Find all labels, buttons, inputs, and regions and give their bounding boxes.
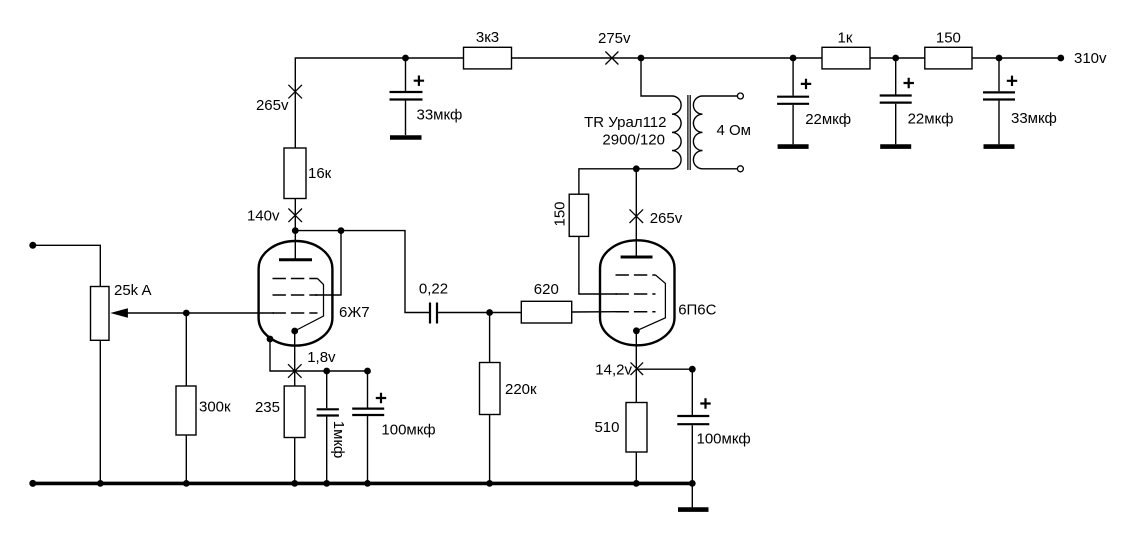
- capacitor C 100мкф (first): [352, 371, 435, 483]
- node bus terminal left: [29, 480, 36, 487]
- resistor R 235: [255, 386, 305, 483]
- wire input to potentiometer: [33, 245, 101, 286]
- svg-text:220к: 220к: [505, 381, 537, 398]
- node junction grid 6П6С: [486, 309, 493, 316]
- wire cathode 6Ж7 down: [294, 331, 296, 386]
- transformer core: [687, 95, 689, 170]
- capacitor C 22мкф (first): [777, 58, 851, 144]
- node wiper junction: [183, 310, 190, 317]
- node junction 33мкф rail: [402, 55, 409, 62]
- wire top supply rail: [295, 58, 1061, 148]
- node junction 100мкф2 top: [689, 366, 696, 373]
- svg-text:275v: 275v: [598, 30, 631, 47]
- svg-text:620: 620: [534, 281, 559, 298]
- ground 33мкф: [390, 135, 422, 140]
- node bus junction right end: [689, 480, 696, 487]
- tube V1 shell node: [267, 336, 274, 343]
- wire cathode 6П6С down: [635, 331, 637, 403]
- node 310v terminal: [1057, 50, 1107, 67]
- node input terminal: [29, 242, 36, 249]
- node junction transformer rail: [638, 55, 645, 62]
- terminal secondary top: [737, 93, 743, 99]
- ground 22мкф first: [778, 144, 809, 149]
- resistor R 150 (screen, vertical): [552, 194, 589, 236]
- wire wiper to grid 6Ж7: [126, 312, 274, 314]
- resistor R 510: [594, 403, 647, 484]
- node bus junction 1мкф: [323, 480, 330, 487]
- ground main: [678, 507, 709, 512]
- resistor R 16к: [284, 148, 332, 199]
- svg-text:14,2v: 14,2v: [595, 361, 632, 378]
- capacitor C 100мкф (second): [677, 369, 750, 483]
- svg-text:33мкф: 33мкф: [1011, 110, 1057, 127]
- svg-text:265v: 265v: [256, 97, 289, 114]
- node bus junction 220к: [486, 480, 493, 487]
- svg-text:150: 150: [552, 201, 569, 226]
- capacitor C 33мкф (first): [390, 58, 463, 135]
- svg-text:16к: 16к: [308, 165, 332, 182]
- node junction primary bottom: [633, 165, 640, 172]
- node anode junction 6Ж7: [292, 227, 299, 234]
- svg-text:6П6С: 6П6С: [678, 302, 716, 319]
- node 265v measure mark (first stage): [256, 85, 302, 114]
- node bus junction 510: [633, 480, 640, 487]
- svg-text:3к3: 3к3: [476, 29, 499, 46]
- node screen junction 6Ж7: [338, 227, 345, 234]
- wire screen grid 6Ж7: [315, 231, 341, 295]
- svg-text:265v: 265v: [650, 210, 683, 227]
- svg-text:0,22: 0,22: [419, 281, 448, 298]
- node junction 1мкф top: [323, 368, 330, 375]
- transformer TR Урал112 primary: [672, 96, 681, 169]
- node 275v measure mark: [598, 30, 631, 65]
- wire primary bottom to screen feed: [579, 169, 672, 194]
- tube V2 grid2: [616, 293, 656, 295]
- wire pot bottom to bus: [99, 340, 101, 483]
- capacitor C 22мкф (second): [880, 58, 954, 144]
- svg-text:140v: 140v: [247, 208, 280, 225]
- resistor R 150 (supply): [925, 30, 972, 69]
- node 140v measure mark: [247, 208, 302, 225]
- svg-text:100мкф: 100мкф: [697, 431, 751, 448]
- svg-text:2900/120: 2900/120: [602, 131, 665, 148]
- label transformer: [584, 114, 666, 148]
- wire anode to coupling: [295, 231, 430, 313]
- wire secondary bottom: [703, 168, 738, 170]
- tube V2 grid3: [616, 274, 656, 276]
- svg-text:310v: 310v: [1074, 50, 1107, 67]
- node bus junction 300к: [183, 480, 190, 487]
- wire 620 to tube grid: [572, 311, 617, 313]
- svg-text:300к: 300к: [199, 399, 231, 416]
- transformer secondary: [693, 96, 702, 169]
- resistor R 1к: [822, 30, 870, 69]
- tube V1 cathode node: [291, 328, 298, 335]
- wire bus to ground: [691, 483, 693, 507]
- ground 33мкф output: [984, 144, 1015, 149]
- svg-text:1мкф: 1мкф: [330, 421, 347, 459]
- resistor R 3к3: [464, 29, 512, 69]
- svg-text:6Ж7: 6Ж7: [339, 304, 370, 321]
- capacitor C 0,22: [419, 281, 448, 324]
- svg-text:1,8v: 1,8v: [307, 349, 336, 366]
- wire coupling to grid network: [437, 312, 521, 314]
- tube V2 grid1: [616, 311, 656, 313]
- wire anode 6П6С: [635, 169, 637, 257]
- resistor R 300к: [176, 313, 231, 483]
- svg-text:100мкф: 100мкф: [381, 422, 435, 439]
- node bus junction 235: [291, 480, 298, 487]
- tube V2 6П6С envelope: [600, 240, 675, 345]
- tube V1 grid2: [273, 294, 318, 296]
- wire 16к to grid-node: [294, 199, 296, 259]
- capacitor C 33мкф (output): [983, 58, 1057, 144]
- tube V1 anode: [279, 258, 312, 261]
- wire shell to cathode junction: [270, 339, 295, 371]
- tube V2 suppressor tie: [636, 275, 665, 331]
- tube V2 cathode node: [633, 327, 640, 334]
- wire cathode rail 6Ж7: [295, 370, 368, 372]
- node bus junction 100мкф: [364, 480, 371, 487]
- svg-text:22мкф: 22мкф: [805, 111, 851, 128]
- tube V1 grid1: [273, 312, 318, 314]
- node 1,8v measure mark: [288, 349, 336, 378]
- node 265v measure mark (output stage): [630, 209, 683, 227]
- svg-text:150: 150: [936, 30, 961, 47]
- node 14,2v measure mark: [595, 361, 643, 378]
- svg-text:22мкф: 22мкф: [908, 111, 954, 128]
- resistor R 620: [521, 281, 571, 323]
- tube V1 6Ж7 envelope: [259, 241, 333, 346]
- tube V1 suppressor tie: [295, 279, 324, 332]
- node junction 100мкф top: [364, 368, 371, 375]
- terminal secondary bottom: [737, 166, 743, 172]
- tube V1 grid3: [273, 278, 318, 280]
- tube V2 anode: [621, 256, 653, 259]
- resistor R 220к: [480, 313, 538, 484]
- svg-text:235: 235: [255, 399, 280, 416]
- svg-text:TR Урал112: TR Урал112: [584, 114, 666, 131]
- svg-text:1к: 1к: [838, 30, 853, 47]
- wire ground bus: [33, 482, 693, 486]
- ground 22мкф second: [880, 144, 911, 149]
- svg-text:4 Ом: 4 Ом: [717, 122, 752, 139]
- svg-text:33мкф: 33мкф: [417, 107, 463, 124]
- potentiometer R 25k A: [91, 282, 152, 340]
- wire secondary top: [703, 95, 738, 97]
- node bus junction pot: [97, 480, 104, 487]
- wire rail to primary top: [641, 58, 672, 96]
- wire cathode rail 6П6С: [636, 368, 692, 370]
- svg-text:510: 510: [594, 419, 619, 436]
- svg-text:25k A: 25k A: [114, 282, 152, 299]
- wire screen feed to 6П6С: [579, 236, 617, 294]
- capacitor C 1мкф: [317, 371, 347, 483]
